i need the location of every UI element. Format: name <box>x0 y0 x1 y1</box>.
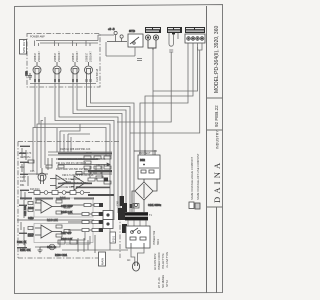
emitter rail wire <box>30 83 96 85</box>
svg-text:92 FEB.22: 92 FEB.22 <box>214 105 219 127</box>
svg-text:STD: STD <box>129 29 136 33</box>
svg-text:CN9: CN9 <box>117 201 120 206</box>
U3 parts <box>20 225 73 252</box>
svg-text:AC: AC <box>127 259 131 262</box>
svg-text:R163 C131: R163 C131 <box>55 254 68 257</box>
svg-text:INDUSTRY: INDUSTRY <box>216 130 220 149</box>
dark label rows right <box>88 170 114 196</box>
ladder dark pads <box>99 203 103 232</box>
svg-text:2SB817: 2SB817 <box>85 52 89 62</box>
op-amp U1 <box>50 175 71 189</box>
op-amp U1b <box>71 172 92 191</box>
legend square 2 <box>195 203 200 209</box>
svg-text:R147: R147 <box>28 234 34 237</box>
transistor Q11 <box>38 168 46 184</box>
phono stage outline <box>34 224 93 243</box>
power switch box <box>126 226 150 248</box>
title block strip <box>207 6 223 293</box>
dark edge connectors <box>122 203 127 233</box>
meter M1 <box>128 29 143 47</box>
relay feed stubs <box>140 150 145 155</box>
capacitor C53 <box>25 71 33 80</box>
svg-text:C117 47P: C117 47P <box>61 232 72 235</box>
rca wires <box>130 43 202 133</box>
preamp upper clutter comps <box>48 156 111 184</box>
svg-text:SAME VOLTAGE-CKT LINE COMPONT: SAME VOLTAGE-CKT LINE COMPONT <box>196 153 200 200</box>
svg-text:C111 10u: C111 10u <box>24 205 27 216</box>
svg-text:SAME VOLTAGE-VALUE COMPONT: SAME VOLTAGE-VALUE COMPONT <box>190 156 194 200</box>
SPK OUT label box <box>20 40 27 55</box>
svg-text:R143 10K: R143 10K <box>47 219 58 222</box>
svg-text:2SD1047: 2SD1047 <box>37 51 41 62</box>
rca jack block <box>185 34 205 43</box>
ground at preamp <box>38 247 43 253</box>
svg-text:C121 1u: C121 1u <box>47 246 57 249</box>
mark near border <box>172 32 175 34</box>
svg-text:R141: R141 <box>60 197 66 200</box>
connector CN1 <box>103 211 113 220</box>
op-amp U2 <box>35 200 62 213</box>
svg-text:NO 18AWG: NO 18AWG <box>162 275 165 288</box>
cord wires to plug <box>131 248 144 262</box>
plug caption <box>127 251 169 288</box>
diode pack under bridge <box>130 204 140 209</box>
svg-text:MAIN: MAIN <box>101 258 105 265</box>
U2 feedback parts <box>24 197 73 222</box>
svg-text:0.22 5W x8: 0.22 5W x8 <box>95 68 99 82</box>
top supply wire <box>35 35 115 46</box>
svg-text:SPK OUT: SPK OUT <box>22 40 26 53</box>
svg-text:POWER CORD: POWER CORD <box>158 252 161 270</box>
svg-text:R161 1K: R161 1K <box>17 241 27 244</box>
svg-text:AC 120V 60Hz: AC 120V 60Hz <box>154 253 157 270</box>
svg-text:B52: B52 <box>140 158 145 162</box>
preamp upper clutter text <box>20 148 106 194</box>
connector CN2 <box>103 220 113 229</box>
svg-text:R140: R140 <box>28 207 34 210</box>
svg-text:MODEL:PD-364(II), 3920, 360: MODEL:PD-364(II), 3920, 360 <box>214 26 220 93</box>
resistor ladder to connectors <box>68 204 103 232</box>
wire branch left drops <box>33 117 90 175</box>
svg-text:R149 6.8K: R149 6.8K <box>61 238 73 241</box>
preamp section label box <box>99 252 106 266</box>
svg-text:R127 4.7K C101 100P: R127 4.7K C101 100P <box>56 178 80 181</box>
transformer T1 <box>118 208 152 220</box>
transistor Q4 <box>85 62 93 82</box>
svg-text:C53: C53 <box>25 71 29 76</box>
page border frame <box>15 5 223 294</box>
mid divider wire <box>17 219 94 221</box>
signal arrow row <box>58 163 110 166</box>
svg-text:R145 2.2K: R145 2.2K <box>61 211 73 214</box>
phones jacks J1 J2 <box>145 35 158 50</box>
svg-text:UL-CSA TYPE: UL-CSA TYPE <box>166 251 169 268</box>
relay control box <box>134 150 160 179</box>
legend square 1 <box>189 202 194 209</box>
svg-text:POLAR TYPE: POLAR TYPE <box>162 253 165 269</box>
tone section label row <box>20 197 94 199</box>
transistor Q1 <box>33 62 41 82</box>
diode chain row <box>28 191 90 195</box>
staircase wire bottom left <box>35 232 128 250</box>
AC plug P1 <box>132 262 139 271</box>
connector block left of bridge <box>117 196 125 206</box>
transformer primary leads <box>128 221 146 227</box>
transistor Q3 <box>71 62 79 82</box>
connector label box <box>110 232 116 243</box>
line in/rec out label box <box>185 27 205 33</box>
meter feed wire <box>106 42 142 61</box>
comp row right <box>88 178 108 182</box>
long wires to line-in jacks <box>117 43 198 155</box>
svg-text:R151 47K: R151 47K <box>20 249 31 252</box>
svg-text:R139: R139 <box>20 180 26 183</box>
aux label box <box>167 27 182 33</box>
svg-text:C107: C107 <box>20 176 26 179</box>
svg-text:2SB817: 2SB817 <box>53 52 57 62</box>
preamp dash-dot enclosure <box>18 142 120 259</box>
fuse F1 <box>134 203 161 207</box>
svg-text:C55: C55 <box>30 170 35 173</box>
svg-text:2SB817: 2SB817 <box>71 52 75 62</box>
bottom sub-circuit <box>17 235 95 257</box>
svg-text:R61: R61 <box>20 184 25 187</box>
svg-text:SPT-2: SPT-2 <box>166 279 169 287</box>
bridge rectifier BR1 <box>132 179 157 212</box>
aux input loop <box>169 33 178 56</box>
svg-text:2SD1047: 2SD1047 <box>57 51 61 62</box>
svg-text:S901: S901 <box>157 239 160 245</box>
svg-text:R115 1K C88 100P R91 10K: R115 1K C88 100P R91 10K <box>60 148 91 151</box>
phones jack label box <box>145 27 161 33</box>
tone stage outline <box>34 198 93 217</box>
svg-text:C141 6800u: C141 6800u <box>148 204 162 207</box>
svg-text:P101: P101 <box>112 235 116 242</box>
transistor type labels <box>33 51 93 62</box>
preamp text bar rows <box>20 146 112 191</box>
svg-text:C115 100P: C115 100P <box>61 205 73 208</box>
resistor row upper <box>24 160 112 180</box>
svg-text:DAINA: DAINA <box>212 160 222 203</box>
svg-text:POWER AMP: POWER AMP <box>30 36 45 39</box>
wire bundle from amp to bus <box>35 82 134 250</box>
power amp dash-dot enclosure <box>27 34 100 88</box>
svg-text:2SB817: 2SB817 <box>33 52 37 62</box>
svg-text:2SD1047: 2SD1047 <box>89 51 93 62</box>
svg-text:2SD1047: 2SD1047 <box>75 51 79 62</box>
svg-text:+B -B: +B -B <box>108 27 115 31</box>
preamp resistor ticks <box>19 148 111 248</box>
svg-text:POWER SW: POWER SW <box>153 230 156 245</box>
preamp entry wires <box>48 152 112 155</box>
+B supply symbols <box>107 27 127 42</box>
op-amp U3 <box>35 225 62 238</box>
transistor Q2 <box>53 62 61 82</box>
power sw label <box>153 230 160 245</box>
emitter resistors <box>34 79 92 82</box>
svg-text:2P PLUG: 2P PLUG <box>158 277 161 288</box>
